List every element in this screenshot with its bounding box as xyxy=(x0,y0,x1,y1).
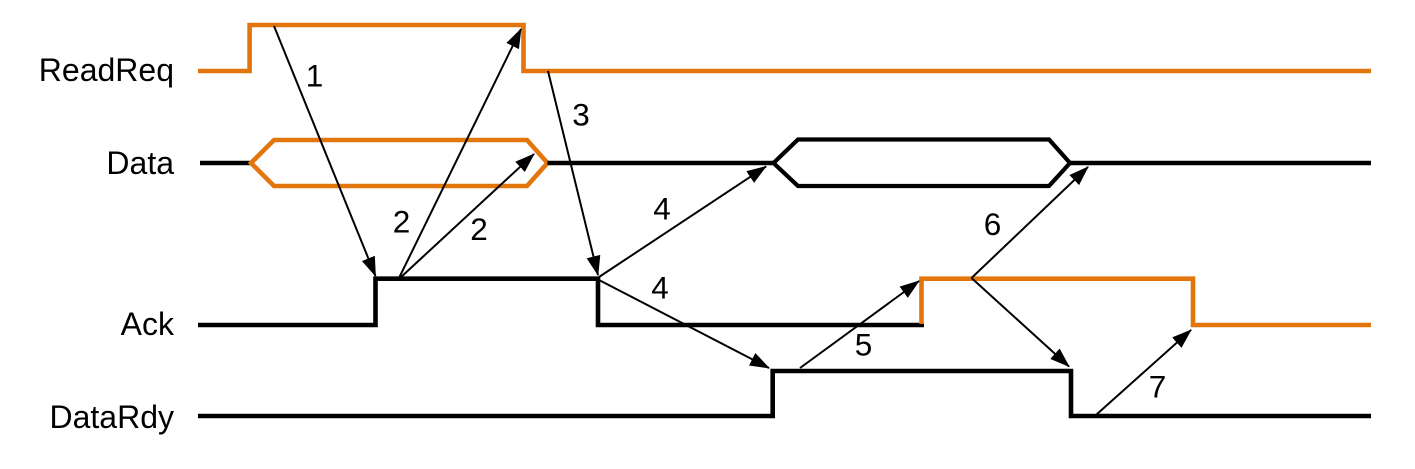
signal DataRdy waveform xyxy=(198,371,1371,416)
svg-text:2: 2 xyxy=(393,204,411,240)
arrow 5 : DataRdy high to Ack second rise xyxy=(800,281,919,368)
wire Data lead-in xyxy=(200,161,251,166)
arrow 4a : Ack fall to Data hexagon 2 left tip xyxy=(599,167,766,278)
svg-text:Data: Data xyxy=(106,145,174,181)
svg-text:7: 7 xyxy=(1149,369,1167,405)
svg-text:2: 2 xyxy=(470,211,488,247)
svg-text:1: 1 xyxy=(306,58,324,94)
signal Ack waveform orange part xyxy=(922,279,1372,325)
wire Data middle xyxy=(548,161,774,166)
arrow 3 : ReadReq low to Ack fall xyxy=(548,71,598,275)
svg-text:5: 5 xyxy=(855,327,873,363)
arrow 4b : Ack fall to DataRdy rise xyxy=(599,280,769,368)
wire Data tail xyxy=(1070,161,1371,166)
svg-text:DataRdy: DataRdy xyxy=(50,399,175,435)
svg-text:6: 6 xyxy=(984,206,1002,242)
svg-text:4: 4 xyxy=(653,191,671,227)
bus-valid hexagon 1 (orange) xyxy=(251,140,548,186)
arrow 2b : Ack high to Data hexagon tip xyxy=(400,154,534,278)
signal ReadReq waveform (orange) xyxy=(198,25,1371,71)
arrow 7 : DataRdy low to Ack second fall xyxy=(1097,330,1192,415)
arrow 6b : Ack second high to DataRdy fall xyxy=(972,278,1070,367)
bus-valid hexagon 2 (black) xyxy=(774,140,1071,187)
svg-text:ReadReq: ReadReq xyxy=(39,52,174,88)
arrow 2a : Ack high to ReadReq fall xyxy=(399,29,521,278)
arrow 1 : ReadReq rise to Ack rise xyxy=(274,26,376,276)
signal Ack waveform black part xyxy=(198,279,924,325)
svg-text:Ack: Ack xyxy=(121,306,175,342)
svg-text:3: 3 xyxy=(572,97,590,133)
arrow 6 : Ack second high to Data line after hexagon 2 xyxy=(972,167,1089,278)
svg-text:4: 4 xyxy=(651,270,669,306)
